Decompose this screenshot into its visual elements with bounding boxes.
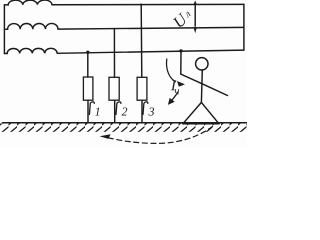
person: torso — [200, 70, 203, 102]
wire: drop from line 2 to resistor r2 — [113, 29, 115, 78]
person: right leg — [201, 102, 219, 123]
wire: drop from line 3 to resistor r1 — [87, 52, 89, 77]
person: head — [196, 58, 208, 70]
voltage arrow U between line1 and line2 — [194, 3, 196, 27]
wire: drop from line 3 to person's hand — [180, 51, 182, 74]
arrow: current into ground near feet — [172, 92, 178, 100]
person: left leg — [183, 102, 202, 123]
svg-text:ч: ч — [174, 85, 179, 97]
wire: r2 lower lead to earth — [114, 100, 116, 122]
label r3 — [143, 102, 148, 115]
inductor winding L3 — [4, 48, 57, 53]
dashed ground-current arc — [105, 126, 213, 143]
wire: r1 lower lead to earth — [87, 100, 89, 122]
svg-text:1: 1 — [95, 105, 101, 119]
svg-text:2: 2 — [121, 105, 127, 119]
wire: right end bus — [243, 4, 245, 50]
resistor r2 body — [109, 77, 119, 100]
wire: left neutral bus — [3, 5, 5, 54]
node: junction dot on line 3 — [86, 51, 89, 54]
resistor r3 body — [137, 77, 147, 100]
resistor r1 body — [83, 77, 93, 100]
node: junction dot on line 1 — [140, 4, 142, 6]
label r1 — [89, 102, 94, 115]
node: junction dot on line 3 at person tap — [179, 49, 182, 52]
person: arms — [181, 74, 228, 95]
wire: phase line 2 — [58, 27, 244, 29]
person: feet base line — [183, 123, 219, 125]
label r2 — [116, 102, 121, 115]
ground surface line — [3, 122, 248, 124]
inductor winding L1 — [4, 0, 52, 5]
ground hatching — [0, 123, 247, 131]
wire: phase line 1 — [52, 3, 244, 5]
current arrow Ich (curved, into hand) — [167, 59, 176, 82]
wire: phase line 3 — [57, 50, 244, 53]
wire: r3 lower lead to earth — [141, 100, 143, 122]
svg-text:3: 3 — [147, 104, 154, 118]
inductor winding L2 — [4, 23, 58, 29]
wire: drop from line 1 to resistor r3 — [140, 5, 143, 78]
